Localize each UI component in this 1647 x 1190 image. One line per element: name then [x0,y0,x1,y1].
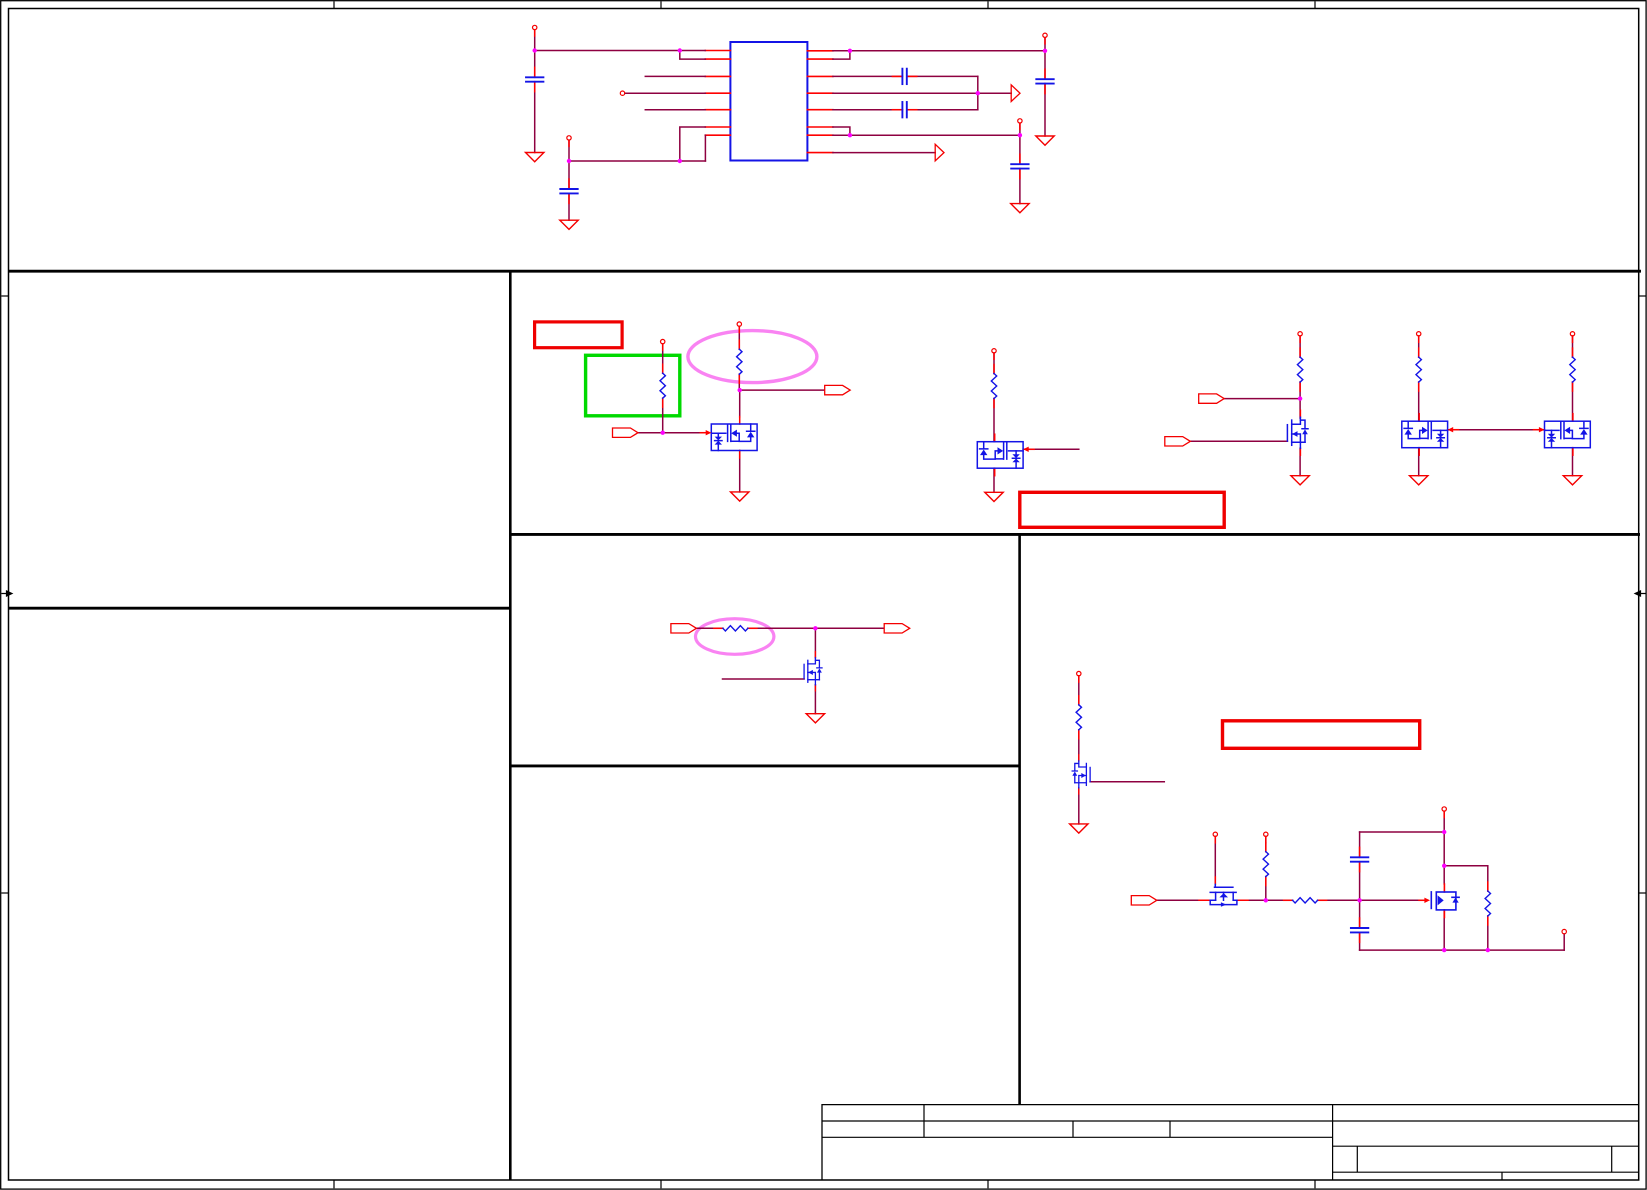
wire pin5r to C5 [833,109,978,111]
resistor R11 [1485,882,1490,925]
border tick top 3 [987,1,989,8]
junction node D [813,626,817,630]
wire Q4 to GND8 [1418,448,1420,476]
U1 left pin stubs [705,51,730,136]
wire VCC1 rail to pin1 [535,50,706,52]
border centre arrow right [1635,591,1646,596]
section divider horizontal y=271 [9,270,1642,273]
title block rev cell divider x=1611 [1611,1146,1613,1172]
highlight red box 3 [1223,721,1420,749]
section divider vertical x=510 [509,271,512,1180]
gate arrowhead Q4 [1448,427,1459,432]
port flag P3 [1199,394,1225,403]
port flag P5 [671,624,697,633]
border tick top 2 [660,1,662,8]
junction node B [738,388,742,392]
power pin VCC9 [1417,332,1421,343]
power pin VCC1 [533,25,537,36]
wire VCC10 to R6 [1572,336,1574,357]
wire rail to pin circle [1563,934,1565,950]
wire right rail pin1r to VCC3 [833,50,1045,52]
no-connect circle pin4 [620,91,624,95]
ground GND10 [806,714,824,723]
junction VCC2 node [567,159,571,163]
wire R2 to node B [738,374,740,390]
wire Q6 source to GND10 [814,685,816,714]
wire Q2 to GND6 [993,468,995,492]
wire pin8r to out arrow 2 [833,152,935,154]
wire pin7 riser [704,135,706,161]
power pin VCC4 [1018,119,1022,130]
wire pin4 from NC circle [625,92,706,94]
ground GND5 [731,492,749,501]
wire VCC4 lead [1019,123,1021,135]
port flag P2 [825,385,851,394]
IC U1 [730,42,807,161]
capacitor C3 [1036,69,1053,93]
off-page arrow OUT1 [1011,85,1020,102]
power pin VCC6 [737,322,741,333]
section divider horizontal y=608 left [9,607,511,610]
capacitor C2 [560,179,577,203]
wire node D to Q6 drain [814,628,816,658]
wire VCC2 to C2 [568,140,570,189]
border centre arrow left [1,591,12,596]
junction pin1-2 tie [678,48,682,52]
U1 right pin stubs [807,51,833,153]
mosfet Q6 [804,652,822,691]
capacitor C5 [892,102,916,117]
capacitor C4 [892,69,916,84]
wire C7 to node F [1359,862,1361,901]
power pin VCC5 [661,339,665,350]
gate arrowhead Q1 [700,430,711,435]
junction bottom rail [678,159,682,163]
wire node to C6 [1019,135,1021,164]
title block size cell divider x=1357 [1356,1146,1358,1172]
border tick left 2 [1,892,8,894]
wire Q2 gate stub [1023,448,1079,450]
junction node G [1442,864,1446,868]
section divider horizontal y=766 [510,764,1019,767]
wire VCC11 to R8 [1078,676,1080,705]
gate arrowhead Q9 [1419,898,1430,903]
gate arrowhead Q2 [1023,447,1034,452]
wire R4 to Q3 drain [1299,382,1301,418]
title block divider x=1073 [1072,1121,1074,1137]
title block row line y=1146 [1333,1145,1639,1147]
wire port4 to Q3 gate [1190,440,1287,442]
resistor R1 [660,364,665,407]
capacitor C8 [1351,918,1368,942]
power pin VCC11 [1077,671,1081,682]
wire pin3 [645,75,705,77]
wire R5 to Q4 [1418,382,1420,421]
mosfet Q7 [1072,755,1090,794]
wire node F to C8 [1359,900,1361,928]
ground GND2 [560,220,578,229]
wire C8 to bottom rail [1359,932,1361,950]
wire R8 to Q7 drain [1078,730,1080,761]
capacitor C6 [1011,154,1028,178]
power pin VCC3 [1043,33,1047,44]
wire R6 to Q5 [1572,382,1574,421]
wire pin3r to C4 [833,75,978,77]
capacitor C7 [1351,847,1368,871]
wire VCC7 to R3 [993,353,995,374]
junction node C [1298,396,1302,400]
resistor R4 [1297,348,1302,391]
wire pin6 riser [680,127,706,161]
resistor R6 [1570,348,1575,391]
junction node A [661,431,665,435]
border tick left 1 [1,295,8,297]
power pin VCC12 [1213,832,1217,843]
border tick bottom 3 [987,1180,989,1188]
wire Q4 gate to Q5 gate [1448,429,1545,431]
wire VCC5 to R1 [662,344,664,373]
wire C1 to GND1 [534,82,536,153]
port flag P6 [884,624,910,633]
wire Q3 source to GND7 [1299,448,1301,476]
wire Q1 top to node B [739,390,741,417]
border tick bottom 2 [660,1180,662,1188]
wire VCC12 to Q8 gate [1214,837,1216,885]
resistor R7 [714,626,757,631]
port flag P1 [613,428,639,437]
resistor R10 [1284,898,1327,903]
junction pin6r-7r tie [848,133,852,137]
wire Q8 drain to node E [1240,899,1292,901]
power pin VCC7 [992,349,996,360]
title block row line y=1137 [822,1136,1333,1138]
resistor R5 [1416,348,1421,391]
title block divider x=1332 [1332,1105,1334,1180]
junction bottom rail Q9 [1442,948,1446,952]
wire Q7 gate stub [1090,781,1164,783]
wire rail drop to pin2 [680,51,706,60]
section divider vertical x=1019 [1018,534,1021,1104]
ground GND4 [1011,204,1029,213]
power pin VCC2 [567,136,571,147]
wire pin5 [645,109,705,111]
junction C4-C5 node [976,91,980,95]
wire R7 to port6 [748,627,884,629]
junction VCC4 node [1018,133,1022,137]
ground GND6 [985,492,1003,501]
power pin VCC10 [1570,332,1574,343]
wire C6 to GND4 [1019,169,1021,204]
port flag P4 [1165,437,1191,446]
resistor R9 [1263,843,1268,886]
wire node G to R11 [1444,866,1488,891]
border tick top 4 [1314,1,1316,8]
junction top rail tee [1442,830,1446,834]
wire bottom left rail [569,160,705,162]
dual mosfet block Q1 [711,417,757,459]
junction top rail left [533,48,537,52]
highlight red box 1 [535,322,623,348]
wire C2 to GND2 [568,193,570,220]
capacitor C1 [526,67,543,91]
ground GND7 [1291,476,1309,485]
wire top rail [1360,831,1445,833]
highlight red box 2 [1020,492,1224,527]
title block row line y=1121 [822,1120,1639,1122]
junction node F [1357,898,1361,902]
highlight green box [586,355,680,416]
junction node E [1264,898,1268,902]
port flag P7 [1131,896,1157,905]
wire top rail to Q9 drain [1443,832,1445,884]
wire Q1 bottom to GND5 [739,451,741,492]
power pin VCC8 [1298,332,1302,343]
ground GND1 [526,153,544,162]
highlight pink ellipse 2 [696,619,774,655]
title block divider x=1170 [1169,1121,1171,1137]
section divider horizontal y=534 right [510,533,1640,536]
border tick right 2 [1639,892,1646,894]
wire pin6r corner [833,127,850,135]
wire node F to C7 [1359,832,1361,857]
ground GND8 [1410,476,1428,485]
wire port3 to node C [1224,398,1300,400]
ground GND11 [1070,824,1088,833]
wire port5 to R7 [696,627,723,629]
wire Q9 source to bottom rail [1443,910,1445,950]
wire VCC6 to R2 [738,326,740,349]
gate arrowhead Q5 [1534,427,1545,432]
wire Q7 source to GND11 [1078,788,1080,824]
power pin circle right [1562,929,1566,933]
mosfet Q8 pmos horizontal [1199,877,1248,907]
wire pin7r to VCC4 [833,134,1020,136]
mosfet Q3 [1287,410,1308,455]
power pin VCC13 [1264,832,1268,843]
title block outline [822,1105,1639,1180]
dual mosfet block Q2 [977,434,1023,476]
resistor R3 [991,365,996,408]
border tick bottom 4 [1314,1180,1316,1188]
power pin VCC14 [1442,807,1446,818]
highlight pink ellipse 1 [688,331,817,383]
resistor R2 [737,340,742,383]
title block divider x=924 [923,1105,925,1138]
wire R1 to node A [662,398,664,433]
border tick right 1 [1639,295,1646,297]
title block row line y=1172 [1333,1171,1639,1173]
ground GND3 [1036,136,1054,145]
title block sheet cell divider x=1502 [1501,1172,1503,1180]
wire R9 to node E [1265,877,1267,901]
wire VCC9 to R5 [1418,336,1420,357]
junction bottom rail R11 [1486,948,1490,952]
wire VCC3 to C3 [1044,38,1046,79]
transistor Q9 [1431,884,1459,918]
wire R11 to bottom rail [1487,916,1489,950]
ground GND9 [1563,476,1581,485]
wire R10 to node F and Q9 gate [1318,899,1424,901]
wire bottom rail [1360,949,1565,951]
wire VCC13 to R9 [1265,837,1267,852]
junction VCC3 node [1043,49,1047,53]
wire C3 to GND3 [1044,84,1046,136]
wire R3 to Q2 [993,399,995,442]
border tick top 1 [333,1,335,8]
wire C4 corner down [977,76,979,109]
junction pin1r-2r tie [848,49,852,53]
wire port1 to Q1 gate [638,432,704,434]
wire VCC14 to top rail [1443,811,1445,832]
wire right drop pin2r [833,51,850,59]
wire port7 to Q8 source [1157,899,1210,901]
wire node B to port2 [740,389,824,391]
resistor R8 [1076,696,1081,739]
wire VCC8 to R4 [1299,336,1301,357]
dual mosfet block Q5 [1545,414,1591,456]
border tick bottom 1 [333,1180,335,1188]
wire Q6 gate stub [723,678,805,680]
wire Q5 to GND9 [1572,448,1574,476]
dual mosfet block Q4 [1402,414,1448,456]
wire pin4r to out arrow [833,92,1011,94]
off-page arrow OUT2 [935,144,944,161]
wire VCC1 to C1 [534,30,536,77]
